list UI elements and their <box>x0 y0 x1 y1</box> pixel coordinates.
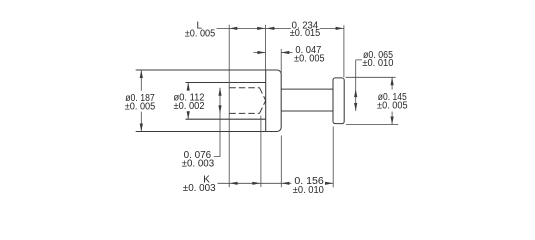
svg-text:±0. 002: ±0. 002 <box>174 101 205 112</box>
hidden hole dia 0.076 dashed top <box>229 87 259 89</box>
hidden hole dia 0.076 dashed bottom <box>229 112 259 114</box>
svg-text:±0. 015: ±0. 015 <box>290 28 321 39</box>
extension line above flange left face <box>265 25 267 70</box>
shaft bottom edge <box>281 110 333 112</box>
dia 0.065 dimension line and leader <box>356 60 362 111</box>
extension line collar right face up <box>343 25 345 77</box>
hidden bore dia 0.112 top line <box>186 82 266 84</box>
svg-text:±0. 005: ±0. 005 <box>294 54 325 65</box>
shared extension line at hole step (L left / K left) <box>228 25 230 187</box>
K dim arrows <box>230 182 238 185</box>
drill point dashed V <box>260 88 266 114</box>
hidden bore dia 0.112 bottom line <box>186 118 266 120</box>
dia 0.145 dimension line stubs and extension stubs <box>346 77 399 124</box>
bottom dimension line (K and 0.156) <box>218 182 334 184</box>
arrow up at body top <box>140 70 143 78</box>
svg-text:±0. 003: ±0. 003 <box>182 159 215 170</box>
dia 0.076 dimension line with leader to text <box>214 88 220 157</box>
extension line below flange right face <box>280 136 282 188</box>
flange outline with rounded right corners <box>266 70 282 132</box>
0.156 dim arrows <box>281 182 289 185</box>
svg-text:±0. 003: ±0. 003 <box>183 183 216 194</box>
0.234 dim arrows <box>266 27 274 30</box>
body left face / dia 0.187 dimension line upper stub with arrows <box>140 70 142 132</box>
body outline bottom edge <box>136 131 266 133</box>
arrow down at body bottom <box>140 124 143 132</box>
collar dia 0.145 <box>333 78 344 124</box>
L dim arrows <box>229 27 237 30</box>
top dimension line (L and 0.234) <box>217 27 344 29</box>
svg-text:±0. 010: ±0. 010 <box>293 185 324 196</box>
flange left face <box>265 70 267 132</box>
extension line K right <box>260 116 262 188</box>
svg-text:±0. 005: ±0. 005 <box>377 100 408 111</box>
extension line above flange right face <box>280 49 282 75</box>
0.047 dimension arrows outside <box>254 52 293 54</box>
body outline top edge <box>136 69 266 71</box>
dia 0.112 dimension line stubs <box>187 83 189 120</box>
svg-text:±0. 005: ±0. 005 <box>185 29 216 40</box>
shaft top edge <box>281 88 333 90</box>
svg-text:±0. 010: ±0. 010 <box>362 58 393 69</box>
svg-text:±0. 005: ±0. 005 <box>125 101 156 112</box>
extension line collar left face down <box>332 127 334 188</box>
